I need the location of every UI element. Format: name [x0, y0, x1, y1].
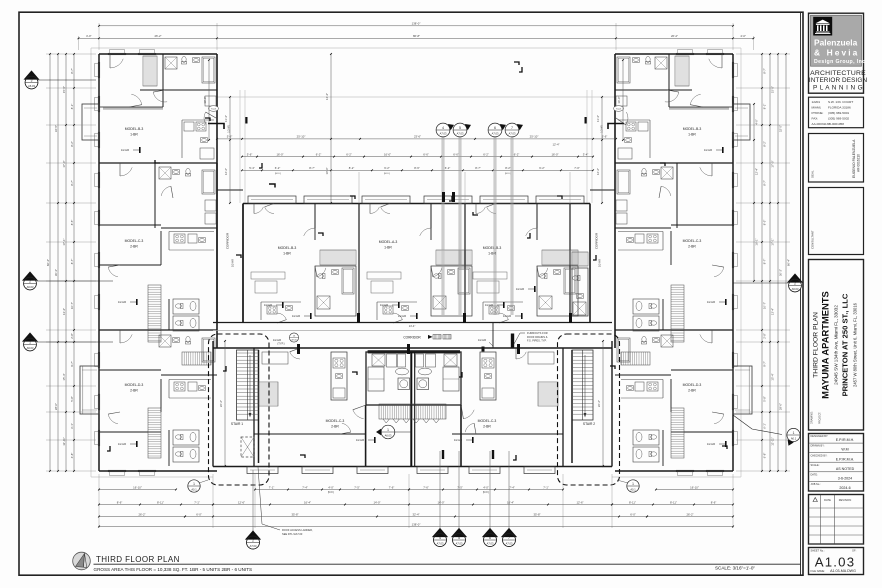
left wing windows: [97, 62, 99, 78]
svg-text:12'-11": 12'-11": [771, 437, 775, 445]
svg-text:1/2-HR: 1/2-HR: [231, 259, 235, 267]
courtyard bubbles: [441, 137, 443, 315]
svg-text:MODEL-B-3: MODEL-B-3: [483, 246, 502, 250]
svg-text:[M.O.]: [M.O.]: [328, 492, 335, 494]
svg-text:15'-5": 15'-5": [771, 86, 775, 93]
svg-text:1/2-HR: 1/2-HR: [118, 442, 126, 446]
svg-text:[M.O.]: [M.O.]: [483, 492, 490, 494]
svg-text:A1.03: A1.03: [815, 555, 855, 570]
svg-text:A7.03: A7.03: [250, 544, 257, 548]
top bar unit wall extension lines: [358, 172, 360, 204]
right wing unit division walls: [615, 162, 733, 164]
svg-text:8'-7": 8'-7": [309, 166, 315, 170]
svg-text:5'-8": 5'-8": [763, 396, 767, 402]
svg-text:26'-2": 26'-2": [671, 34, 678, 38]
svg-text:6'-0": 6'-0": [196, 512, 202, 516]
stair 1: [237, 350, 259, 420]
svg-text:138'-0": 138'-0": [412, 22, 421, 26]
left wing unit division walls: [99, 162, 217, 164]
svg-text:16'-4": 16'-4": [304, 500, 311, 504]
grid bubble right lower: [733, 415, 782, 435]
svg-text:2-BR: 2-BR: [483, 425, 491, 429]
svg-text:CHECKED BY:: CHECKED BY:: [811, 454, 828, 457]
svg-text:MODEL-A-3: MODEL-A-3: [379, 240, 398, 244]
right wing bay window: [733, 366, 752, 414]
center top bar walls: [243, 203, 590, 205]
svg-text:SHEET No.:: SHEET No.:: [811, 549, 825, 553]
svg-text:16'-10": 16'-10": [133, 485, 142, 489]
plumbing chases: [442, 192, 445, 202]
svg-text:35'-8": 35'-8": [291, 512, 298, 516]
svg-text:26'-2": 26'-2": [154, 34, 161, 38]
svg-text:1/2-HR: 1/2-HR: [356, 438, 364, 442]
svg-text:REVISION: REVISION: [839, 498, 852, 502]
svg-text:DRAWING:: DRAWING:: [811, 411, 814, 424]
svg-text:A7.03: A7.03: [437, 541, 444, 545]
svg-text:7'-0": 7'-0": [574, 166, 580, 170]
svg-text:10'-7": 10'-7": [763, 302, 767, 309]
svg-text:16'-0": 16'-0": [551, 152, 558, 156]
right dimension col 2: [777, 54, 779, 471]
svg-text:MIAMI,: MIAMI,: [812, 106, 822, 110]
svg-text:MODEL-C-3: MODEL-C-3: [125, 239, 144, 243]
svg-text:8'-5": 8'-5": [70, 220, 74, 226]
svg-text:2-BR: 2-BR: [130, 245, 138, 249]
svg-text:23'-6": 23'-6": [414, 135, 421, 139]
svg-text:14'-0": 14'-0": [373, 500, 380, 504]
left wing exterior walls: [98, 54, 100, 471]
svg-text:2457 W 80th Street, Unit 6, Mi: 2457 W 80th Street, Unit 6, Miami, FL, 3…: [853, 302, 858, 387]
svg-text:A7.03: A7.03: [509, 131, 516, 135]
svg-text:7'-1": 7'-1": [194, 500, 200, 504]
svg-text:PRINCETON AT 250 ST., LLC: PRINCETON AT 250 ST., LLC: [841, 293, 850, 396]
right dimension col 5: [753, 104, 755, 281]
svg-text:15'-4": 15'-4": [771, 373, 775, 380]
bottom balconies: [247, 467, 278, 474]
svg-text:26'-2": 26'-2": [597, 400, 601, 407]
svg-text:11'-4": 11'-4": [596, 115, 600, 122]
grid bubble left 2: [37, 280, 113, 282]
svg-text:14'-0": 14'-0": [437, 500, 444, 504]
svg-text:1/2-HR: 1/2-HR: [292, 314, 300, 318]
svg-text:2'-8": 2'-8": [70, 333, 74, 339]
svg-text:5: 5: [459, 126, 461, 130]
stair 1 roof hatch: [241, 437, 254, 457]
svg-text:1/2-HR: 1/2-HR: [503, 314, 511, 318]
roof overhang dashed boxes: [209, 334, 270, 485]
svg-text:DESIGNED BY:: DESIGNED BY:: [811, 435, 829, 438]
svg-text:SEAL: SEAL: [811, 170, 815, 178]
svg-text:DATE:: DATE:: [811, 473, 818, 476]
bottom dimension row 1: [99, 489, 176, 491]
svg-text:10'-6": 10'-6": [325, 167, 329, 174]
svg-text:S.W. 133. COURT: S.W. 133. COURT: [828, 100, 853, 104]
svg-text:A7.03: A7.03: [456, 541, 463, 545]
svg-text:30'-3": 30'-3": [54, 269, 58, 276]
svg-text:A7.03: A7.03: [292, 338, 297, 341]
roof overhang gray lines: [90, 48, 92, 477]
svg-text:GROSS AREA THIS FLOOR = 10,338: GROSS AREA THIS FLOOR = 10,338 SQ. FT. 1…: [94, 567, 253, 572]
svg-text:6'-6": 6'-6": [453, 152, 459, 156]
svg-text:8'-7": 8'-7": [763, 259, 767, 265]
svg-text:12'-2": 12'-2": [224, 168, 228, 175]
top balconies: [248, 196, 296, 204]
svg-text:1-BR: 1-BR: [688, 133, 696, 137]
svg-text:6'-2": 6'-2": [514, 152, 520, 156]
svg-text:1-BR: 1-BR: [130, 133, 138, 137]
svg-text:12201: 12201: [812, 100, 821, 104]
svg-text:MODEL-C-3: MODEL-C-3: [478, 419, 497, 423]
svg-text:1/2-HR: 1/2-HR: [485, 303, 493, 307]
svg-text:1-BR: 1-BR: [384, 246, 392, 250]
svg-text:2024-6: 2024-6: [839, 486, 850, 490]
svg-text:A6.03: A6.03: [27, 346, 34, 350]
stair 2: [572, 350, 593, 420]
svg-text:3-6-2024: 3-6-2024: [838, 476, 852, 480]
right dimension col 4: [761, 54, 763, 471]
svg-text:5'-8": 5'-8": [70, 396, 74, 402]
svg-text:A0.1: A0.1: [191, 487, 197, 491]
svg-text:2-BR: 2-BR: [130, 389, 138, 393]
bottom dimension row 3: [185, 516, 647, 518]
top dimension extension lines: [98, 23, 100, 50]
svg-text:THIRD FLOOR PLAN: THIRD FLOOR PLAN: [96, 555, 180, 564]
svg-text:6'-2": 6'-2": [445, 166, 451, 170]
svg-text:MODEL-D-3: MODEL-D-3: [125, 383, 144, 387]
svg-text:8'-2": 8'-2": [763, 141, 767, 147]
svg-text:AR-0016210: AR-0016210: [857, 154, 861, 172]
svg-text:3'-4": 3'-4": [583, 152, 589, 156]
svg-text:PHONE:: PHONE:: [812, 111, 824, 115]
svg-text:(305) 969-5002: (305) 969-5002: [828, 117, 849, 121]
svg-text:5'-6": 5'-6": [247, 152, 253, 156]
svg-text:16'-0": 16'-0": [384, 152, 391, 156]
svg-text:13'-4": 13'-4": [62, 308, 66, 315]
svg-text:A6.03: A6.03: [385, 433, 392, 437]
svg-text:1/2-HR: 1/2-HR: [704, 148, 712, 152]
svg-text:16'-0": 16'-0": [276, 152, 283, 156]
svg-text:8'-1": 8'-1": [763, 104, 767, 110]
info table: [809, 434, 864, 492]
svg-text:[M.O.]: [M.O.]: [275, 173, 281, 175]
svg-text:12'-6": 12'-6": [576, 500, 583, 504]
svg-text:ROOF DRAINS &: ROOF DRAINS &: [527, 335, 548, 339]
courtyard vertical dims: [330, 54, 332, 203]
svg-text:[M.O.]: [M.O.]: [384, 173, 390, 175]
svg-text:Trash: Trash: [211, 108, 217, 111]
svg-text:1/2-HR: 1/2-HR: [118, 300, 126, 304]
svg-text:17'-0": 17'-0": [771, 160, 775, 167]
left dimension col 1: [49, 54, 51, 471]
svg-text:17'-1": 17'-1": [771, 238, 775, 245]
svg-text:16'-0": 16'-0": [617, 96, 621, 103]
svg-text:4'-0": 4'-0": [740, 34, 746, 38]
svg-text:1: 1: [193, 482, 195, 486]
svg-text:4'-0": 4'-0": [755, 119, 759, 125]
svg-text:138'-0": 138'-0": [412, 522, 421, 526]
overhang bubbles: [199, 480, 208, 483]
svg-text:11'-4": 11'-4": [224, 115, 228, 122]
svg-text:CORRIDOR: CORRIDOR: [226, 232, 230, 249]
svg-text:8'-2": 8'-2": [349, 166, 355, 170]
svg-text:FURROUTS FOR: FURROUTS FOR: [527, 331, 548, 335]
svg-text:5'-6": 5'-6": [602, 135, 608, 139]
svg-text:12'-2": 12'-2": [596, 168, 600, 175]
svg-text:A7.03: A7.03: [506, 541, 513, 545]
svg-text:(305) 969-5001: (305) 969-5001: [828, 111, 849, 115]
svg-text:8'-6": 8'-6": [711, 500, 717, 504]
svg-text:MODEL-B-3: MODEL-B-3: [683, 127, 702, 131]
svg-text:12'-11": 12'-11": [62, 437, 66, 445]
bottom leader bubbles: [439, 451, 441, 531]
courtyard dimension row B: [242, 156, 593, 158]
center section marker: [381, 425, 395, 439]
svg-text:DRAWN BY:: DRAWN BY:: [811, 445, 825, 448]
left wing unit D-3 fixtures: [185, 336, 190, 344]
right wing windows: [731, 62, 733, 78]
svg-text:A6.03: A6.03: [792, 287, 799, 291]
svg-text:FLORIDA 33186: FLORIDA 33186: [828, 106, 851, 110]
svg-text:6: 6: [494, 126, 496, 130]
svg-text:1/2-HR: 1/2-HR: [264, 303, 272, 307]
svg-text:8'-2": 8'-2": [70, 141, 74, 147]
svg-text:Design Group, Inc.: Design Group, Inc.: [814, 59, 867, 65]
svg-text:CONSULTANT: CONSULTANT: [811, 230, 815, 249]
right wing fixtures: [615, 54, 724, 462]
svg-text:8'-2": 8'-2": [505, 166, 511, 170]
bottom bar unit fixtures: [331, 352, 347, 400]
svg-text:2-BR: 2-BR: [331, 425, 339, 429]
corridor rating marks: [428, 335, 433, 339]
svg-text:2'-8": 2'-8": [763, 333, 767, 339]
svg-text:Palenzuela: Palenzuela: [814, 38, 858, 48]
svg-text:7'-1": 7'-1": [269, 485, 275, 489]
svg-text:1/2-HR: 1/2-HR: [707, 300, 715, 304]
svg-text:5'-6": 5'-6": [227, 135, 233, 139]
svg-text:1-BR: 1-BR: [283, 252, 291, 256]
bottom dimension row 2: [213, 504, 612, 506]
svg-text:7'-6": 7'-6": [389, 485, 395, 489]
svg-text:SCALE: 3/16"=1'-0": SCALE: 3/16"=1'-0": [715, 566, 755, 571]
right dimension col 1: [785, 54, 787, 471]
svg-text:7'-5": 7'-5": [457, 485, 463, 489]
svg-text:26'-2": 26'-2": [138, 512, 145, 516]
svg-text:6'-2": 6'-2": [275, 166, 281, 170]
horizontal corridor: [213, 322, 612, 324]
svg-text:MODEL-C-3: MODEL-C-3: [683, 239, 702, 243]
svg-text:32'-5": 32'-5": [779, 125, 783, 132]
svg-text:28'-0": 28'-0": [779, 403, 783, 410]
svg-text:14'-4": 14'-4": [409, 324, 416, 328]
left wing balcony: [82, 104, 99, 140]
left wing unit B-3 fixtures: [165, 57, 177, 69]
svg-text:30'-3": 30'-3": [779, 269, 783, 276]
svg-text:W.M: W.M: [841, 448, 848, 452]
svg-text:7'-6": 7'-6": [423, 485, 429, 489]
svg-text:P L A N N I N G: P L A N N I N G: [813, 84, 863, 91]
svg-text:86'-4": 86'-4": [46, 259, 50, 266]
svg-text:STAIR 2: STAIR 2: [583, 422, 595, 426]
consultant box: [809, 188, 864, 255]
svg-text:ARCHITECTURE: ARCHITECTURE: [810, 70, 866, 77]
svg-text:7'-4": 7'-4": [302, 485, 308, 489]
svg-text:17'-0": 17'-0": [62, 160, 66, 167]
svg-text:2-BR: 2-BR: [688, 389, 696, 393]
logo box: [809, 13, 864, 93]
svg-text:12'-4": 12'-4": [552, 143, 559, 147]
bottom bar walls: [213, 347, 612, 349]
svg-text:14'-4": 14'-4": [325, 93, 329, 100]
svg-text:Trash: Trash: [616, 108, 622, 111]
bottom dimension extension lines: [98, 474, 100, 528]
svg-text:A7.03: A7.03: [487, 541, 494, 545]
svg-text:6'-1": 6'-1": [763, 423, 767, 429]
svg-text:1: 1: [632, 482, 634, 486]
svg-text:86'-8": 86'-8": [413, 34, 420, 38]
title bar line: [94, 563, 801, 565]
svg-text:4: 4: [442, 126, 444, 130]
trash marker right: [614, 106, 624, 112]
grid bubble left 3: [37, 341, 113, 343]
svg-text:ROOF ACCESS LADDER,: ROOF ACCESS LADDER,: [282, 528, 313, 532]
svg-text:6'-1": 6'-1": [70, 423, 74, 429]
courtyard dimension row C: [242, 169, 593, 171]
svg-text:1/2-HR: 1/2-HR: [380, 303, 388, 307]
right dimension extension lines: [736, 53, 790, 55]
stair vertical dims: [224, 341, 226, 466]
top dimension row 1: [99, 25, 733, 27]
svg-text:A6.03: A6.03: [27, 285, 34, 289]
svg-text:1/2-HR: 1/2-HR: [598, 259, 602, 267]
left dimension col 4: [73, 54, 75, 471]
left dimension extension lines: [46, 53, 96, 55]
top bar unit interiors: [253, 204, 255, 214]
courtyard flag: [269, 184, 275, 188]
left vertical corridor: [216, 163, 218, 323]
svg-text:A7.03: A7.03: [492, 131, 499, 135]
svg-text:13'-4": 13'-4": [771, 308, 775, 315]
svg-text:8'-6": 8'-6": [414, 166, 420, 170]
svg-text:CORRIDOR: CORRIDOR: [595, 232, 599, 249]
svg-text:8'-1": 8'-1": [70, 104, 74, 110]
svg-text:26'-2": 26'-2": [686, 512, 693, 516]
top dimension row 2: [79, 37, 754, 39]
svg-text:8'-5": 8'-5": [763, 220, 767, 226]
svg-text:16'-0": 16'-0": [203, 96, 207, 103]
grid bubble left 1: [38, 79, 96, 81]
sheet number box: [809, 548, 864, 575]
svg-text:12'-4": 12'-4": [755, 168, 759, 175]
svg-text:1/2-HR: 1/2-HR: [707, 442, 715, 446]
right dimension col 3: [769, 54, 771, 471]
bottom leader thick ticks: [442, 450, 444, 459]
svg-text:9'-7": 9'-7": [70, 361, 74, 367]
svg-text:8'-7": 8'-7": [475, 166, 481, 170]
service strip: [572, 252, 588, 266]
svg-text:1/2-HR: 1/2-HR: [454, 438, 462, 442]
svg-text:15'-5": 15'-5": [62, 86, 66, 93]
project box: [809, 260, 864, 431]
svg-text:5'-4": 5'-4": [249, 166, 255, 170]
svg-text:12'-6": 12'-6": [238, 500, 245, 504]
svg-text:PROJECT:: PROJECT:: [819, 412, 822, 424]
svg-text:JOB No.:: JOB No.:: [811, 483, 821, 486]
svg-text:OF:: OF:: [852, 549, 857, 553]
svg-text:8'-7": 8'-7": [763, 68, 767, 74]
svg-text:6'-0": 6'-0": [630, 512, 636, 516]
svg-text:6'-2": 6'-2": [316, 152, 322, 156]
left wing unit C-3 fixtures: [185, 168, 190, 176]
svg-text:AA-0003113: AA-0003113: [812, 122, 829, 126]
svg-text:A7.03: A7.03: [440, 131, 447, 135]
right wing balcony: [733, 104, 750, 140]
svg-text:FILE NAME:: FILE NAME:: [811, 569, 826, 573]
svg-text:1-BR: 1-BR: [488, 252, 496, 256]
address box: [809, 97, 864, 128]
svg-text:32'-4": 32'-4": [412, 512, 419, 516]
svg-text:8'-11": 8'-11": [157, 500, 164, 504]
bottom dimension row 4: [99, 526, 733, 528]
svg-text:6'-6": 6'-6": [423, 152, 429, 156]
svg-text:24945 SW 134th Ave, Miami FL,: 24945 SW 134th Ave, Miami FL, 33032: [834, 305, 839, 385]
svg-text:25'-10": 25'-10": [297, 135, 306, 139]
svg-text:FAX:: FAX:: [812, 117, 819, 121]
svg-text:AS NOTED: AS NOTED: [836, 467, 855, 471]
svg-text:7'-1": 7'-1": [543, 485, 549, 489]
svg-text:1: 1: [387, 428, 389, 432]
svg-text:EUGENIO PALENZUELA: EUGENIO PALENZUELA: [852, 139, 856, 178]
svg-text:1/2-HR: 1/2-HR: [516, 287, 524, 291]
svg-text:7'-5": 7'-5": [354, 485, 360, 489]
svg-text:32'-5": 32'-5": [54, 125, 58, 132]
svg-text:16'-4": 16'-4": [507, 500, 514, 504]
svg-text:E.P./R.M.H.: E.P./R.M.H.: [836, 457, 855, 461]
svg-text:7: 7: [511, 126, 513, 130]
svg-text:1/2-HR: 1/2-HR: [273, 338, 281, 342]
svg-text:MODEL-D-3: MODEL-D-3: [683, 383, 702, 387]
trash marker left: [209, 106, 219, 112]
svg-text:17'-1": 17'-1": [62, 238, 66, 245]
svg-text:8'-7": 8'-7": [763, 180, 767, 186]
svg-text:16'-1": 16'-1": [755, 238, 759, 245]
svg-text:8'-11": 8'-11": [670, 500, 677, 504]
svg-text:INTERIOR DESIGN: INTERIOR DESIGN: [809, 77, 868, 84]
logo square: [813, 17, 832, 36]
svg-text:THIRD FLOOR PLAN: THIRD FLOOR PLAN: [812, 312, 819, 378]
svg-text:10'-7": 10'-7": [70, 302, 74, 309]
svg-text:[M.O.]: [M.O.]: [505, 173, 511, 175]
svg-text:26'-2": 26'-2": [219, 400, 223, 407]
svg-text:STAIR 1: STAIR 1: [231, 422, 243, 426]
svg-text:6'-2": 6'-2": [483, 152, 489, 156]
svg-text:A0.1: A0.1: [630, 487, 636, 491]
svg-text:9'-7": 9'-7": [763, 361, 767, 367]
svg-text:6'-2": 6'-2": [384, 166, 390, 170]
left dimension col 2: [57, 54, 59, 471]
svg-text:6'-2": 6'-2": [539, 166, 545, 170]
svg-text:8'-11": 8'-11": [629, 500, 636, 504]
svg-text:A6.03: A6.03: [28, 84, 35, 88]
svg-text:CORRIDOR: CORRIDOR: [403, 336, 421, 340]
svg-text:MODEL-C-3: MODEL-C-3: [326, 419, 345, 423]
svg-text:6'-8": 6'-8": [763, 453, 767, 459]
svg-text:6'-2": 6'-2": [346, 152, 352, 156]
svg-text:25'-10": 25'-10": [530, 135, 539, 139]
svg-text:1/2-HR: 1/2-HR: [121, 148, 129, 152]
svg-text:F.S. PIPES, TYP.: F.S. PIPES, TYP.: [527, 339, 547, 343]
svg-text:IB-0001058: IB-0001058: [828, 122, 844, 126]
svg-text:MAYUMA APARTMENTS: MAYUMA APARTMENTS: [820, 291, 831, 399]
